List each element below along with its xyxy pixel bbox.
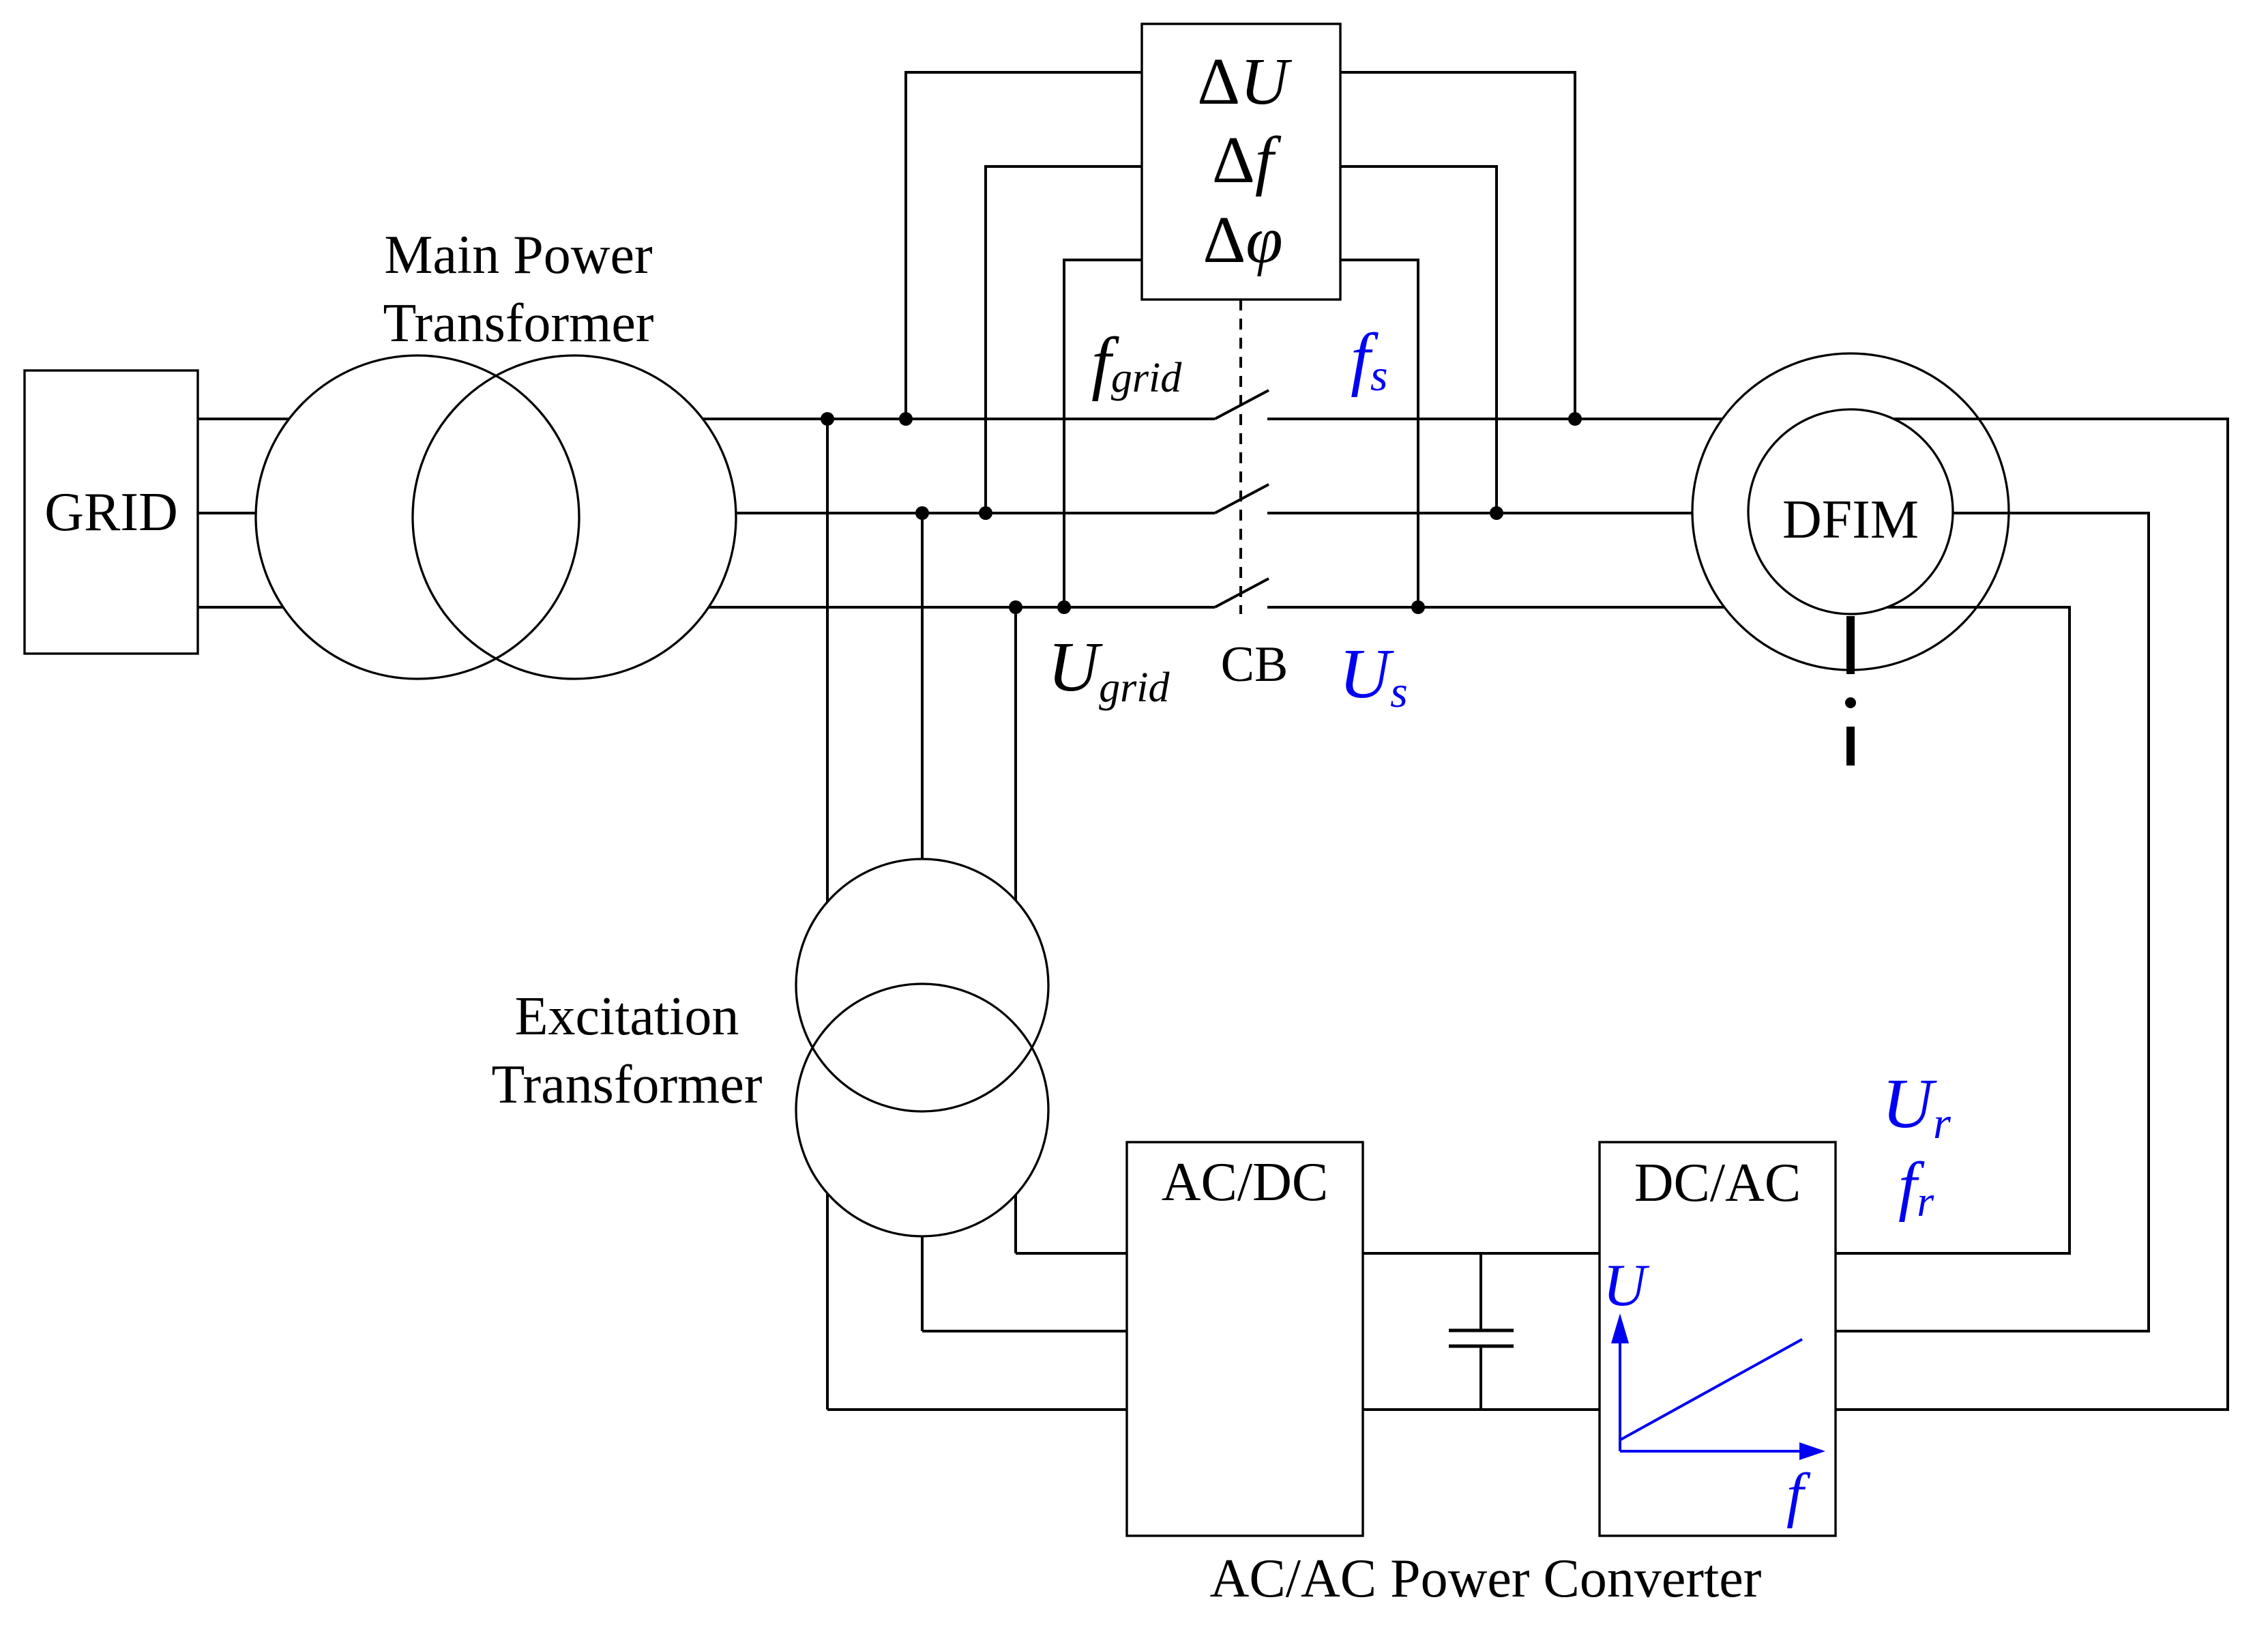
svg-text:Us: Us xyxy=(1339,635,1408,717)
wire DFIM rotor right phase3 xyxy=(1836,607,2070,1253)
svg-text:ΔU: ΔU xyxy=(1197,45,1293,119)
wire sync left dphi xyxy=(1064,260,1142,607)
graph f axis arrowhead xyxy=(1799,1442,1825,1460)
wire DC link positive xyxy=(1363,1252,1600,1255)
svg-text:Transformer: Transformer xyxy=(383,293,654,353)
transformer T1 Main Power primary xyxy=(256,355,579,679)
svg-text:AC/DC: AC/DC xyxy=(1162,1152,1329,1212)
converter box DC/AC xyxy=(1600,1142,1836,1536)
svg-text:DC/AC: DC/AC xyxy=(1634,1153,1801,1213)
svg-text:Main Power: Main Power xyxy=(384,225,652,285)
transformer T2 Excitation secondary xyxy=(796,984,1048,1236)
svg-text:DFIM: DFIM xyxy=(1782,490,1919,550)
wire sync right df xyxy=(1340,166,1497,513)
capacitor C1 bottom plate xyxy=(1449,1345,1514,1348)
capacitor C1 bottom lead xyxy=(1479,1346,1482,1410)
machine DFIM shaft dash-dot xyxy=(1846,616,1855,674)
svg-text:CB: CB xyxy=(1221,637,1288,693)
circuit breaker CB blade phase3 xyxy=(1215,579,1269,607)
wire DFIM rotor right phase2 xyxy=(1836,513,2149,1331)
graph U axis arrowhead xyxy=(1611,1313,1629,1343)
wire bus phase1 CB-to-DFIM xyxy=(1267,418,1722,420)
transformer T1 Main Power winding mask xyxy=(256,355,579,679)
node bus1 sync left tap xyxy=(899,412,913,426)
wire sync right dphi xyxy=(1340,260,1418,607)
node bus3 sync right tap xyxy=(1411,600,1425,614)
wire down C bus3-to-excitation-transformer xyxy=(1014,607,1017,1253)
circuit breaker CB blade phase2 xyxy=(1215,484,1269,513)
transformer T2 Excitation primary xyxy=(796,859,1048,1111)
circuit breaker CB dashed link xyxy=(1239,300,1242,614)
svg-text:fs: fs xyxy=(1351,319,1388,400)
svg-text:fr: fr xyxy=(1898,1149,1934,1225)
graph f axis xyxy=(1620,1450,1802,1453)
wire excitation-to-ACDC middle xyxy=(922,1330,1127,1332)
transformer T2 Excitation winding mask xyxy=(796,859,1048,1111)
svg-text:Ugrid: Ugrid xyxy=(1048,628,1170,711)
wire DFIM rotor right phase1 xyxy=(1836,419,2228,1410)
svg-text:Excitation: Excitation xyxy=(515,987,739,1047)
node bus1 excitation tap xyxy=(821,412,834,426)
capacitor C1 top plate xyxy=(1449,1329,1514,1332)
wire bus phase3 CB-to-DFIM xyxy=(1267,606,1724,609)
GRID source box xyxy=(25,370,198,654)
machine DFIM shaft dot xyxy=(1845,697,1856,708)
svg-text:fgrid: fgrid xyxy=(1091,323,1182,402)
svg-text:Transformer: Transformer xyxy=(492,1055,763,1115)
svg-text:Ur: Ur xyxy=(1882,1064,1951,1148)
node bus3 sync left tap xyxy=(1057,600,1071,614)
synchronization unit box xyxy=(1142,24,1340,300)
svg-text:Δφ: Δφ xyxy=(1203,203,1282,277)
graph U axis xyxy=(1619,1339,1621,1451)
machine DFIM rotor circle xyxy=(1748,409,1953,614)
wire DC link negative xyxy=(1363,1408,1600,1411)
wire excitation-to-ACDC bottom xyxy=(827,1408,1127,1411)
node bus1 sync right tap xyxy=(1568,412,1582,426)
node bus2 excitation tap xyxy=(915,506,929,520)
svg-text:Δf: Δf xyxy=(1212,123,1282,197)
circuit breaker CB blade phase1 xyxy=(1215,390,1269,419)
node bus2 sync left tap xyxy=(979,506,992,520)
wire bus phase2 grid-to-CB xyxy=(198,512,1215,514)
transformer T1 Main Power secondary xyxy=(413,355,736,679)
svg-text:GRID: GRID xyxy=(44,482,178,542)
wire down A bus1-to-excitation-transformer xyxy=(826,419,829,1410)
node bus2 sync right tap xyxy=(1490,506,1503,520)
wire bus phase2 CB-to-DFIM xyxy=(1267,512,1692,514)
node bus3 excitation tap xyxy=(1009,600,1022,614)
machine DFIM stator circle xyxy=(1692,353,2009,670)
wire bus phase1 grid-to-CB xyxy=(198,418,1215,420)
wire excitation-to-ACDC top xyxy=(1016,1252,1127,1255)
graph U-f characteristic line xyxy=(1621,1339,1802,1440)
wire down B bus2-to-excitation-transformer xyxy=(921,513,924,1331)
svg-text:U: U xyxy=(1603,1253,1650,1319)
wire sync right dU xyxy=(1340,72,1575,419)
wire sync left df xyxy=(986,166,1142,513)
capacitor C1 top lead xyxy=(1479,1253,1482,1330)
svg-text:AC/AC Power Converter: AC/AC Power Converter xyxy=(1210,1549,1762,1609)
wire sync left dU xyxy=(906,72,1142,419)
wire bus phase3 grid-to-CB xyxy=(198,606,1215,609)
converter box AC/DC xyxy=(1127,1142,1363,1536)
